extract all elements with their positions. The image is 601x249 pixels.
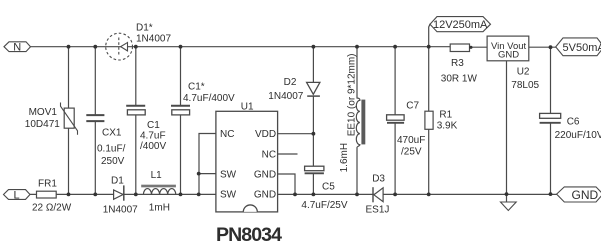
svg-text:MOV1: MOV1 xyxy=(29,107,58,118)
svg-text:R1: R1 xyxy=(439,110,452,121)
svg-text:SW: SW xyxy=(220,189,237,200)
svg-text:PN8034: PN8034 xyxy=(216,224,282,246)
svg-text:SW: SW xyxy=(220,169,237,180)
svg-text:U1: U1 xyxy=(241,102,254,113)
svg-text:4.7uF: 4.7uF xyxy=(140,131,166,142)
svg-text:L: L xyxy=(13,189,19,201)
svg-text:EE10 (or 9*12mm): EE10 (or 9*12mm) xyxy=(347,53,358,136)
svg-text:C7: C7 xyxy=(406,101,419,112)
svg-text:GND: GND xyxy=(498,50,519,61)
svg-text:1N4007: 1N4007 xyxy=(136,34,171,45)
svg-text:1N4007: 1N4007 xyxy=(103,205,138,216)
svg-text:/25V: /25V xyxy=(401,147,422,158)
svg-text:3.9K: 3.9K xyxy=(437,121,458,132)
svg-text:N: N xyxy=(13,42,21,54)
svg-text:C1*: C1* xyxy=(188,82,205,93)
svg-text:/400V: /400V xyxy=(140,141,166,152)
svg-text:220uF/10V: 220uF/10V xyxy=(555,130,601,141)
svg-text:NC: NC xyxy=(220,129,234,140)
svg-text:D1: D1 xyxy=(111,176,124,187)
svg-text:1.6mH: 1.6mH xyxy=(339,143,350,172)
svg-text:C5: C5 xyxy=(322,182,335,193)
svg-text:D3: D3 xyxy=(372,174,385,185)
svg-text:C6: C6 xyxy=(567,117,580,128)
svg-text:1N4007: 1N4007 xyxy=(268,91,303,102)
svg-text:5V50mA: 5V50mA xyxy=(563,42,601,54)
svg-text:250V: 250V xyxy=(101,156,125,167)
svg-text:GND: GND xyxy=(572,188,599,202)
svg-text:L1: L1 xyxy=(151,170,163,181)
svg-text:30R 1W: 30R 1W xyxy=(441,74,478,85)
svg-text:22 Ω/2W: 22 Ω/2W xyxy=(32,203,72,214)
svg-text:NC: NC xyxy=(262,150,276,161)
svg-text:D2: D2 xyxy=(284,77,297,88)
svg-text:470uF: 470uF xyxy=(397,135,425,146)
svg-text:R3: R3 xyxy=(451,58,464,69)
svg-text:GND: GND xyxy=(254,170,276,181)
svg-text:FR1: FR1 xyxy=(38,179,57,190)
svg-text:4.7uF/25V: 4.7uF/25V xyxy=(301,200,347,211)
svg-text:VDD: VDD xyxy=(255,129,276,140)
svg-text:0.1uF/: 0.1uF/ xyxy=(97,144,126,155)
svg-text:C1: C1 xyxy=(147,120,160,131)
svg-text:CX1: CX1 xyxy=(102,128,122,139)
svg-text:78L05: 78L05 xyxy=(511,80,539,91)
svg-text:12V250mA: 12V250mA xyxy=(433,19,488,31)
svg-text:ES1J: ES1J xyxy=(366,205,390,216)
svg-text:10D471: 10D471 xyxy=(25,119,60,130)
svg-text:4.7uF/400V: 4.7uF/400V xyxy=(183,93,235,104)
svg-text:1mH: 1mH xyxy=(149,203,170,214)
svg-text:U2: U2 xyxy=(517,67,530,78)
svg-text:D1*: D1* xyxy=(136,23,153,34)
svg-text:GND: GND xyxy=(254,189,276,200)
